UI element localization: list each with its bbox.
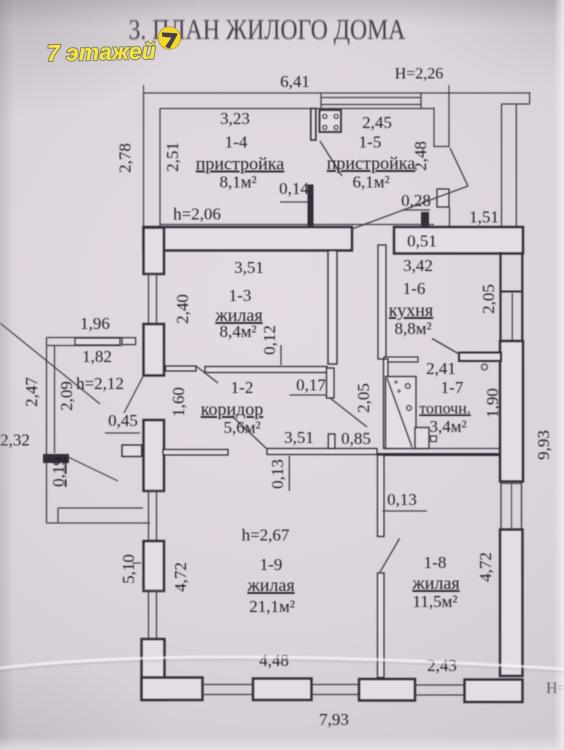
svg-text:7 этажей: 7 этажей: [47, 38, 156, 66]
